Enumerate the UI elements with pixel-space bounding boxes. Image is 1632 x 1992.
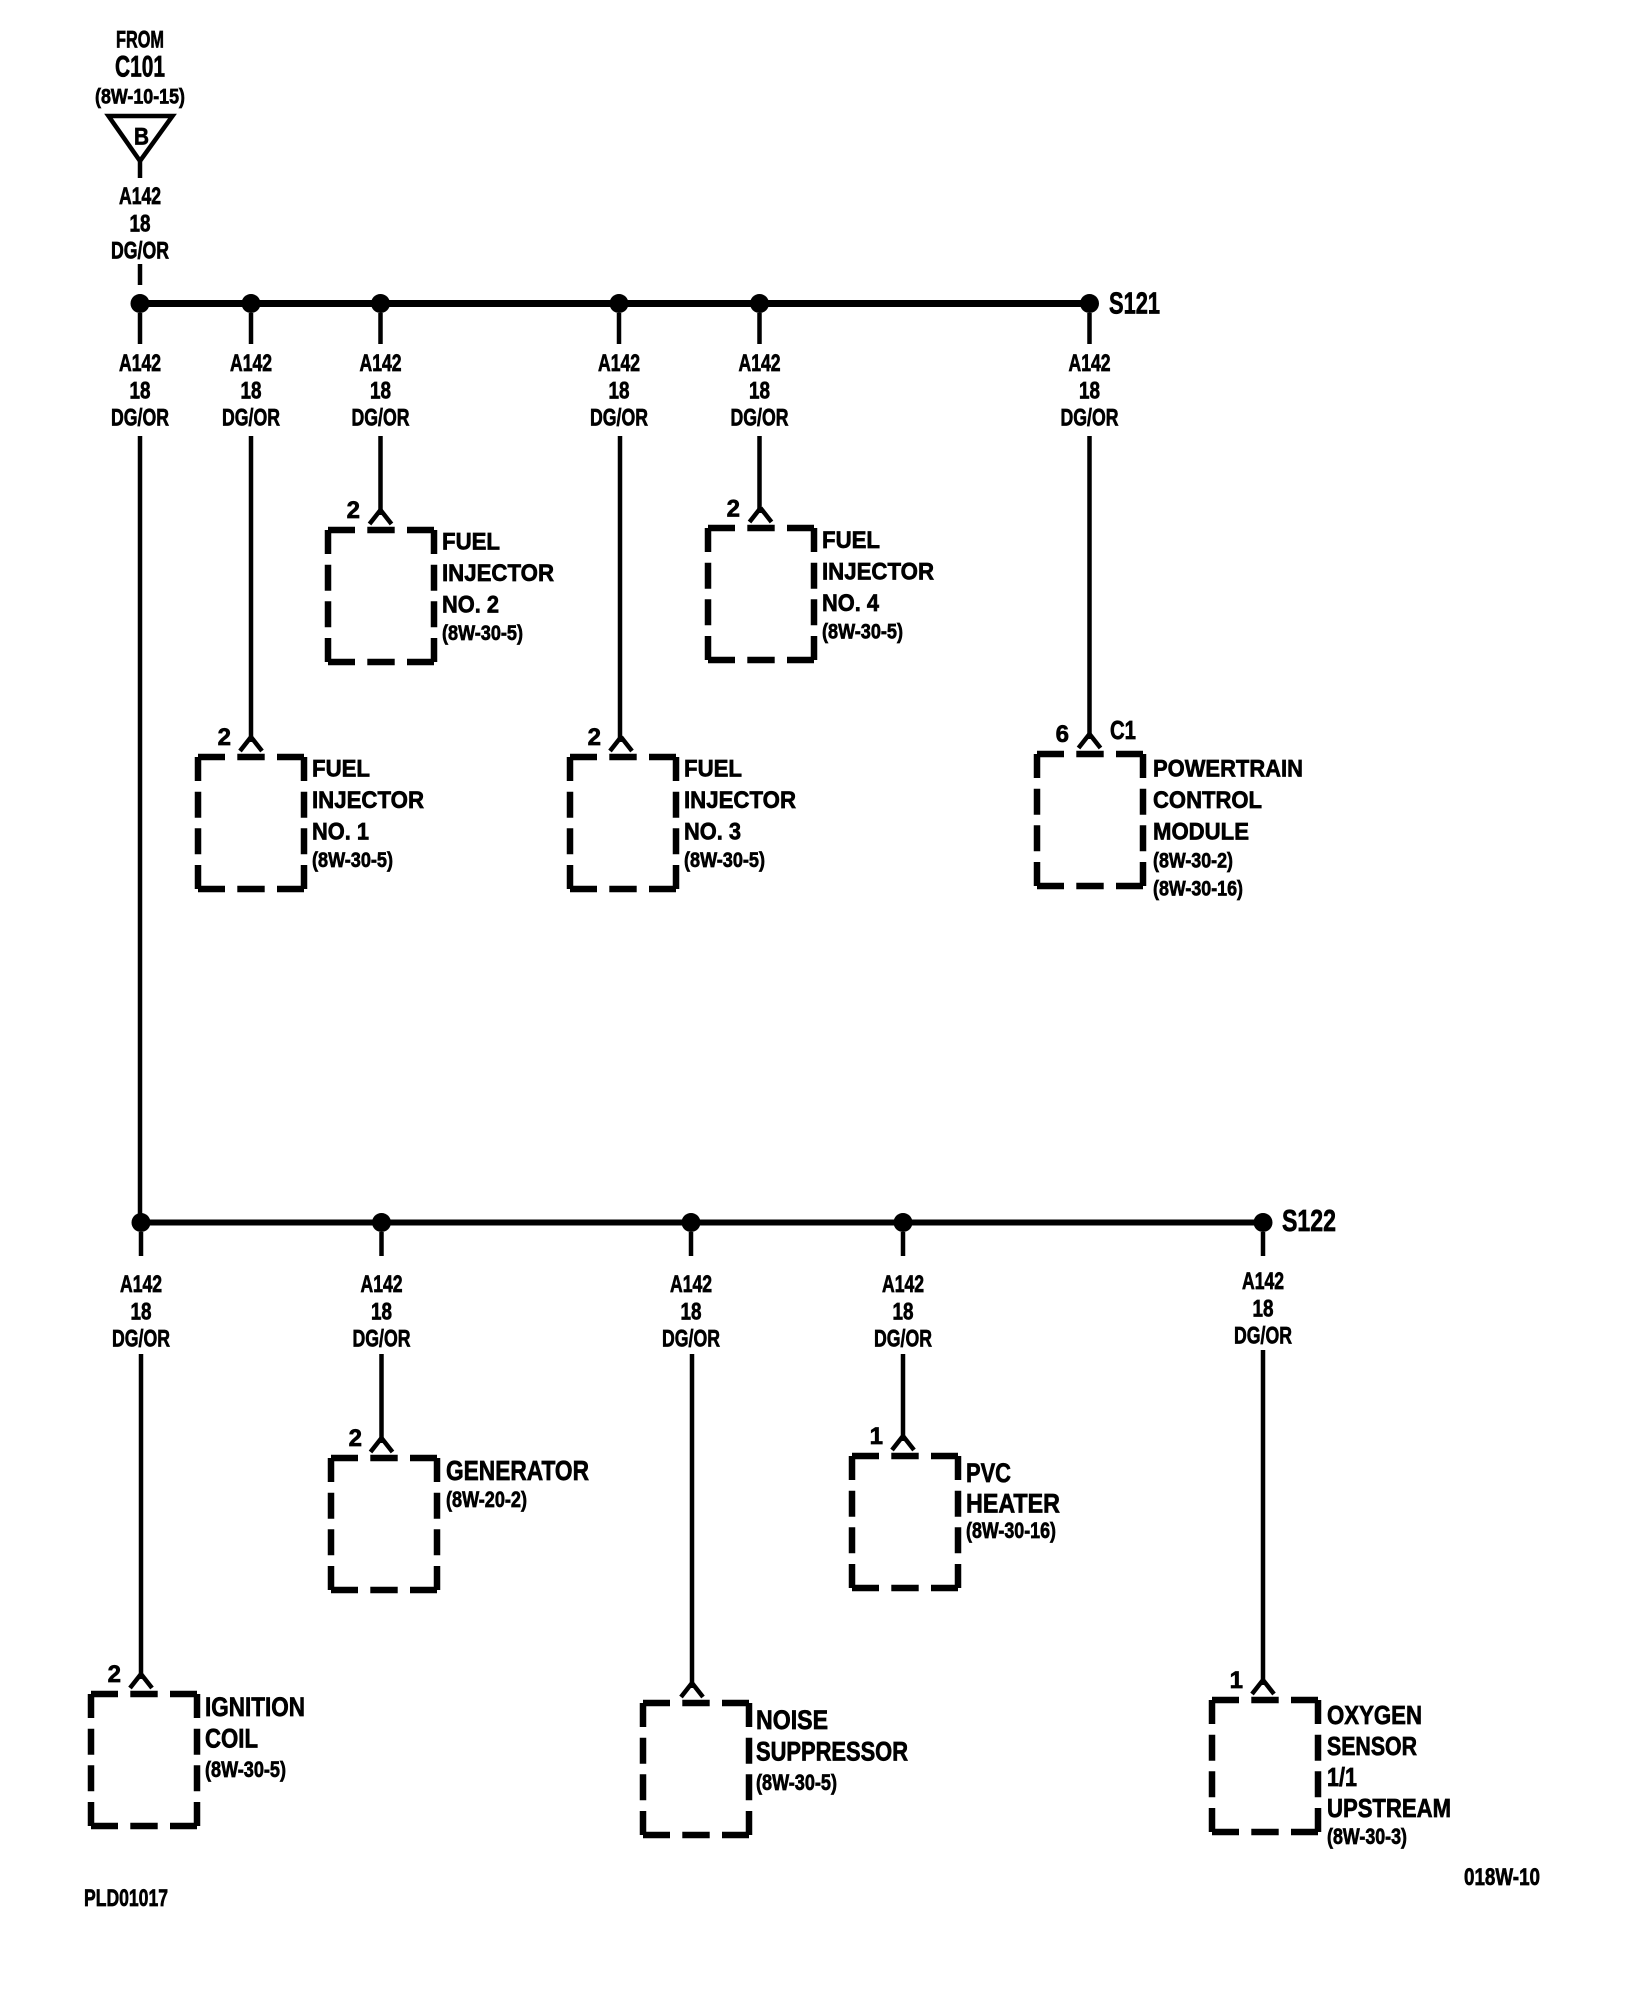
svg-text:S121: S121: [1109, 286, 1160, 321]
svg-text:C1: C1: [1110, 715, 1136, 745]
svg-text:NO. 4: NO. 4: [822, 590, 879, 617]
svg-text:1: 1: [870, 1423, 883, 1450]
svg-text:(8W-10-15): (8W-10-15): [95, 85, 185, 109]
svg-text:NOISE: NOISE: [756, 1705, 828, 1735]
svg-text:FUEL: FUEL: [822, 527, 880, 554]
svg-text:2: 2: [218, 724, 231, 751]
svg-text:COIL: COIL: [205, 1724, 258, 1754]
svg-text:OXYGEN: OXYGEN: [1327, 1700, 1422, 1730]
svg-text:UPSTREAM: UPSTREAM: [1327, 1793, 1451, 1823]
svg-text:INJECTOR: INJECTOR: [684, 787, 796, 814]
svg-text:1/1: 1/1: [1327, 1762, 1357, 1792]
svg-text:INJECTOR: INJECTOR: [822, 559, 934, 586]
svg-text:(8W-30-5): (8W-30-5): [822, 620, 903, 644]
svg-text:FUEL: FUEL: [684, 756, 742, 783]
svg-text:6: 6: [1056, 721, 1069, 748]
svg-text:INJECTOR: INJECTOR: [442, 560, 554, 587]
svg-text:INJECTOR: INJECTOR: [312, 787, 424, 814]
svg-text:(8W-30-5): (8W-30-5): [756, 1770, 837, 1795]
svg-text:POWERTRAIN: POWERTRAIN: [1153, 756, 1303, 783]
svg-text:(8W-30-5): (8W-30-5): [205, 1757, 286, 1782]
svg-text:FUEL: FUEL: [442, 529, 500, 556]
svg-text:(8W-30-2): (8W-30-2): [1153, 849, 1233, 873]
svg-text:C101: C101: [115, 51, 165, 84]
svg-text:PVC: PVC: [966, 1458, 1011, 1488]
svg-text:HEATER: HEATER: [966, 1489, 1060, 1519]
svg-text:FROM: FROM: [116, 27, 164, 54]
svg-text:018W-10: 018W-10: [1464, 1864, 1540, 1891]
svg-text:(8W-30-5): (8W-30-5): [442, 621, 523, 645]
svg-text:SUPPRESSOR: SUPPRESSOR: [756, 1737, 908, 1767]
svg-text:NO. 1: NO. 1: [312, 819, 369, 846]
svg-text:S122: S122: [1282, 1203, 1336, 1238]
svg-text:CONTROL: CONTROL: [1153, 787, 1262, 814]
svg-text:NO. 3: NO. 3: [684, 819, 741, 846]
svg-text:2: 2: [108, 1661, 121, 1688]
svg-text:2: 2: [349, 1425, 362, 1452]
svg-text:(8W-30-5): (8W-30-5): [312, 848, 393, 872]
svg-text:GENERATOR: GENERATOR: [446, 1455, 589, 1486]
svg-text:(8W-30-16): (8W-30-16): [1153, 877, 1243, 901]
svg-text:1: 1: [1230, 1667, 1243, 1694]
svg-text:2: 2: [727, 496, 740, 523]
svg-text:PLD01017: PLD01017: [84, 1885, 168, 1912]
svg-text:(8W-30-5): (8W-30-5): [684, 848, 765, 872]
svg-text:FUEL: FUEL: [312, 756, 370, 783]
svg-text:(8W-20-2): (8W-20-2): [446, 1487, 527, 1512]
svg-text:B: B: [134, 124, 149, 151]
svg-text:IGNITION: IGNITION: [205, 1692, 305, 1722]
svg-text:2: 2: [347, 497, 360, 524]
svg-text:MODULE: MODULE: [1153, 819, 1249, 846]
svg-text:(8W-30-16): (8W-30-16): [966, 1518, 1056, 1543]
svg-text:NO. 2: NO. 2: [442, 592, 499, 619]
svg-text:SENSOR: SENSOR: [1327, 1731, 1417, 1761]
svg-text:(8W-30-3): (8W-30-3): [1327, 1824, 1407, 1849]
svg-text:2: 2: [588, 724, 601, 751]
